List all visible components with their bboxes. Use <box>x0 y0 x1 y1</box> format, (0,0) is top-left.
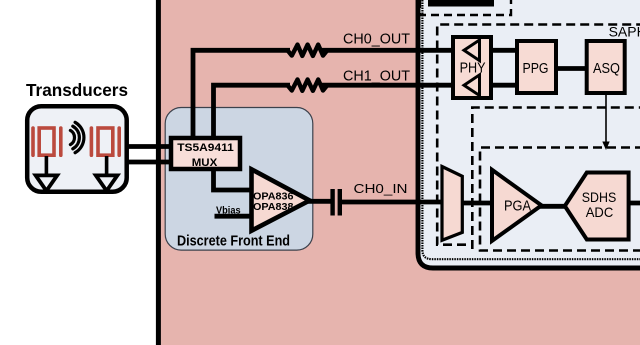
svg-text:MUX: MUX <box>192 157 218 169</box>
svg-text:CH0_OUT: CH0_OUT <box>343 32 410 48</box>
svg-text:OPA838: OPA838 <box>253 201 294 213</box>
svg-text:Discrete Front End: Discrete Front End <box>177 233 290 250</box>
svg-text:CH1_OUT: CH1_OUT <box>343 69 410 85</box>
svg-text:Transducers: Transducers <box>26 80 128 100</box>
svg-text:CH0_IN: CH0_IN <box>354 181 408 196</box>
svg-text:Vbias: Vbias <box>216 206 241 217</box>
svg-text:PPG: PPG <box>523 60 549 77</box>
svg-text:TS5A9411: TS5A9411 <box>177 142 234 154</box>
svg-text:ASQ: ASQ <box>593 60 620 77</box>
svg-text:SDHS: SDHS <box>582 189 617 205</box>
svg-text:PHY: PHY <box>460 60 486 77</box>
svg-text:ADC: ADC <box>586 204 614 220</box>
svg-text:PGA: PGA <box>504 198 531 215</box>
svg-text:SAPH: SAPH <box>609 23 640 39</box>
